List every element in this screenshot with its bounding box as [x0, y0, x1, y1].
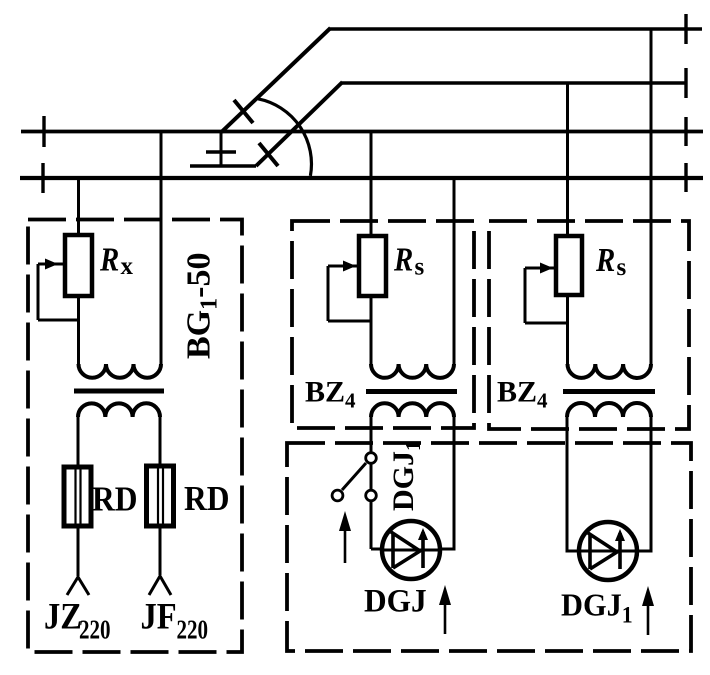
terminal chevron JZ [67, 577, 89, 595]
isolator tick on diagonal 1 [234, 100, 253, 123]
connector vertical at node x=221 [220, 131, 223, 166]
wiper arrow Rs middle [328, 266, 371, 321]
rectifier DGJ circle [382, 521, 440, 579]
svg-text:x: x [121, 253, 134, 280]
bus line 2 [342, 81, 687, 84]
svg-text:RD: RD [92, 480, 137, 519]
bus line 3 [21, 130, 703, 134]
bus line 2 left diagonal [256, 82, 343, 166]
wire below fuse right [159, 526, 162, 575]
transformer BZ4 middle core [366, 389, 457, 394]
transformer BG primary [79, 364, 162, 378]
terminal chevron JF [149, 576, 171, 595]
right tick line1 [684, 14, 687, 44]
transformer BZ4 middle primary [371, 364, 454, 378]
transformer BG secondary [78, 403, 160, 417]
isolator tick on diagonal 2 [259, 143, 278, 166]
wire middle Rs to primary [370, 296, 373, 365]
switch actuation arrow [344, 524, 347, 563]
bus line 1 (top feeder) [330, 27, 702, 30]
right tick line2 [684, 68, 687, 98]
switch blade [342, 463, 366, 490]
tick on connector [206, 150, 236, 153]
dashed box BZ4 right [489, 221, 689, 429]
transformer BG core [74, 389, 164, 394]
wire right Rs to primary [566, 296, 569, 365]
svg-text:R: R [393, 240, 413, 278]
transformer BZ4 middle secondary [371, 403, 454, 417]
resistor Rs middle [359, 236, 386, 296]
dashed box DGJ lower [287, 443, 691, 651]
svg-text:220: 220 [177, 615, 209, 645]
wire to DGJ rectifier [371, 548, 382, 551]
rectifier DGJ1 circle [579, 522, 637, 580]
wire secondary left to fuse [77, 417, 80, 467]
dashed box BG1-50 [28, 220, 242, 653]
transformer BZ4 right secondary [567, 403, 651, 417]
svg-text:RD: RD [184, 480, 229, 519]
wire secondary right down [637, 417, 651, 551]
svg-text:DGJ: DGJ [364, 582, 427, 619]
fuse RD left [64, 467, 91, 526]
wire secondary right to fuse [159, 417, 162, 468]
switch contact circle lower [366, 490, 377, 501]
wire drop to middle Rs [370, 132, 373, 237]
transformer BZ4 right primary [568, 364, 652, 378]
wiper arrow Rx [38, 264, 78, 320]
svg-text:JF: JF [141, 596, 177, 637]
stub wire at y=166 [190, 164, 256, 167]
wire drop to middle right winding [453, 178, 456, 365]
resistor Rx [65, 235, 92, 296]
rectifier DGJ1 internals [581, 550, 635, 553]
rectifier DGJ internals [384, 549, 438, 552]
wire Rx to primary [77, 296, 80, 365]
angle arc [258, 99, 311, 176]
left tick line3 [42, 116, 45, 147]
wire secondary left down [567, 417, 579, 551]
DGJ arrow [444, 599, 447, 634]
wire drop to left box right winding [160, 132, 163, 366]
right tick line3 [684, 117, 687, 146]
svg-text:s: s [617, 254, 627, 281]
bus line 4 [20, 176, 703, 180]
svg-text:s: s [415, 254, 425, 281]
left tick line4 [41, 163, 44, 193]
svg-text:220: 220 [79, 615, 111, 645]
switch contact circle top [366, 453, 377, 464]
wiper arrow Rs right [525, 268, 568, 323]
right tick line4 [684, 163, 687, 192]
DGJ1 arrow [647, 600, 650, 635]
fuse RD right [147, 466, 174, 526]
wire below fuse left [77, 526, 80, 576]
wire secondary right down [440, 417, 454, 549]
wire drop to right Rs [566, 83, 569, 236]
wire drop to Rx [77, 178, 80, 235]
dashed box BZ4 middle [292, 221, 474, 428]
svg-text:JZ: JZ [44, 596, 82, 637]
svg-text:R: R [99, 240, 119, 278]
transformer BZ4 right core [563, 389, 655, 394]
switch contact circle left [332, 490, 343, 501]
resistor Rs right [556, 236, 582, 295]
wire drop to right box right winding [650, 29, 653, 365]
svg-text:DGJ1: DGJ1 [387, 441, 425, 512]
svg-text:R: R [595, 241, 615, 279]
wire secondary left to switch [370, 417, 373, 549]
bus line 1 left diagonal [222, 28, 331, 132]
